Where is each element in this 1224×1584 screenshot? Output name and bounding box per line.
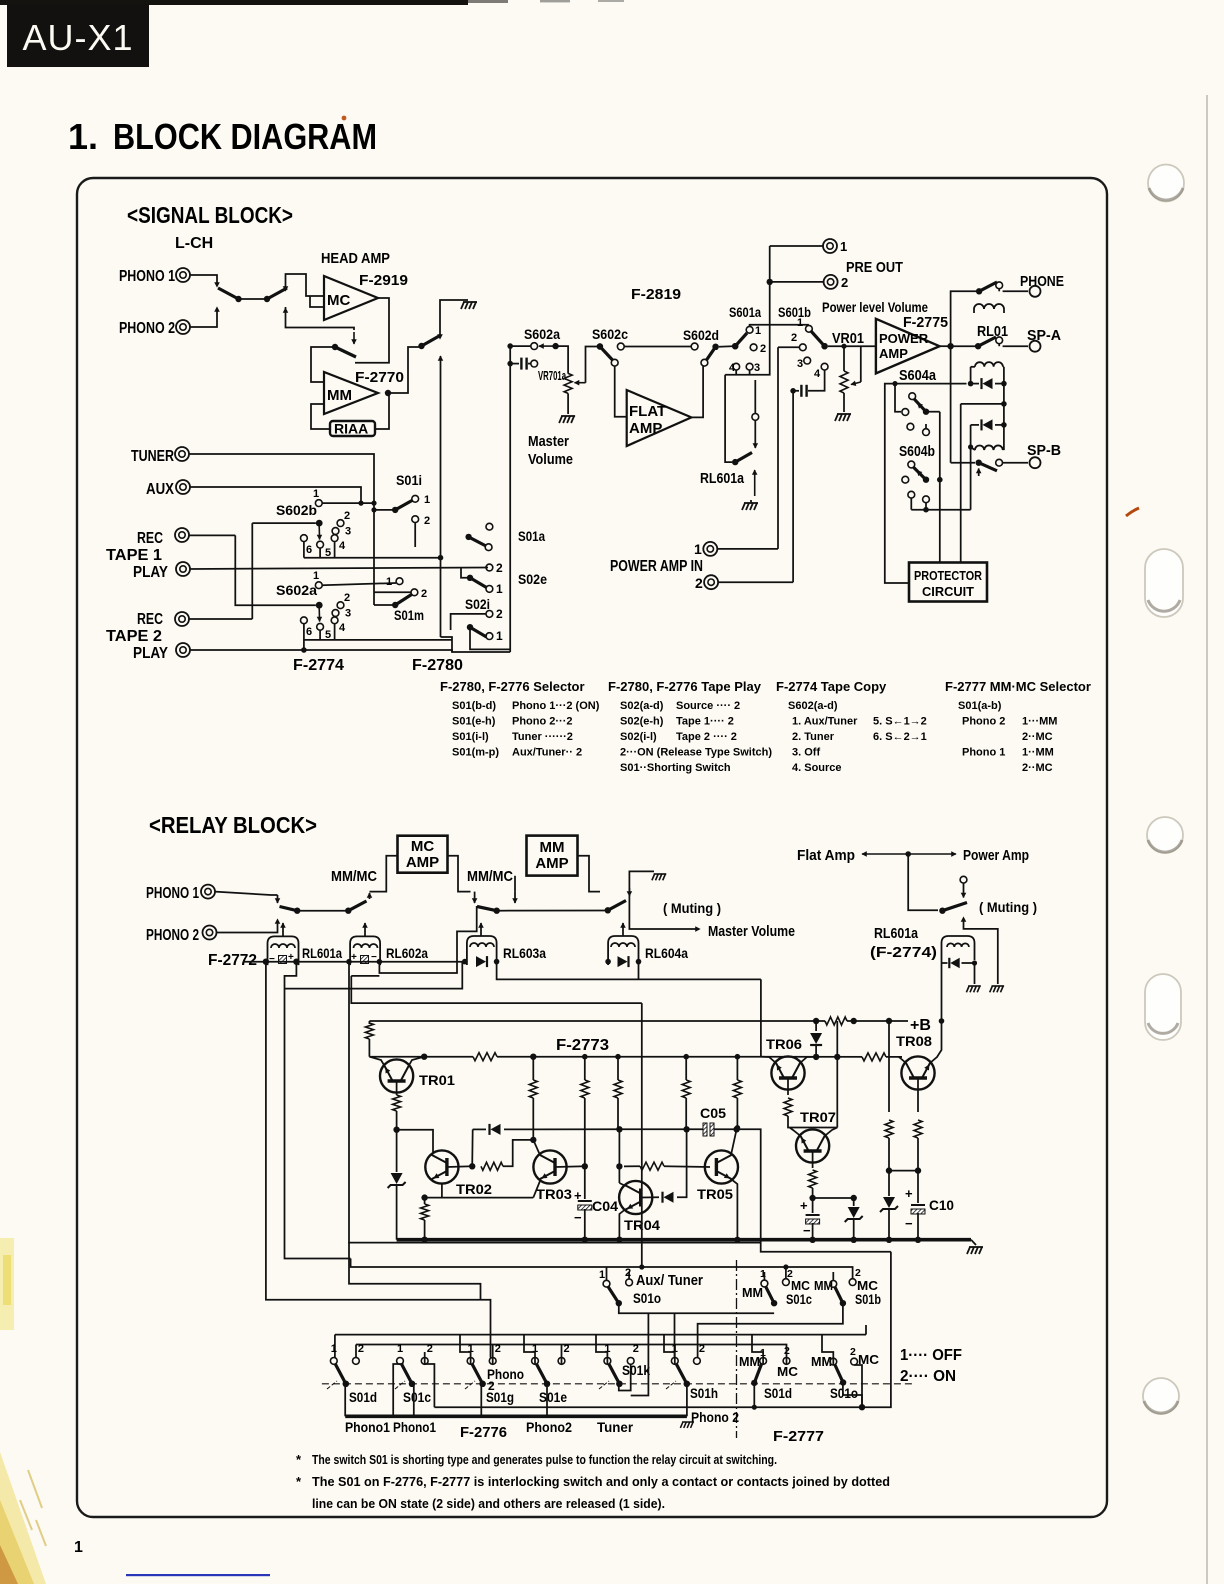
capacitor S601b branch bbox=[790, 388, 796, 394]
diagram outer border bbox=[77, 178, 1107, 1517]
svg-text:3. Off: 3. Off bbox=[792, 747, 820, 759]
svg-text:F-2775: F-2775 bbox=[903, 314, 948, 331]
wire MC amp input bbox=[370, 856, 398, 892]
transistor TR08 bbox=[901, 1056, 934, 1089]
svg-text:Tape 2 ···· 2: Tape 2 ···· 2 bbox=[676, 731, 737, 743]
ground muting bbox=[652, 874, 666, 880]
svg-text:1: 1 bbox=[840, 239, 847, 254]
resistor TR05 base bbox=[616, 1163, 622, 1169]
wire common down to S01h contact1 bbox=[674, 1313, 676, 1357]
wire relay left leg to +B rail bbox=[941, 960, 943, 1021]
wire relay routing v4 bbox=[351, 976, 642, 1003]
svg-text:POWER AMP IN: POWER AMP IN bbox=[610, 558, 703, 575]
svg-text:+: + bbox=[800, 1198, 808, 1213]
svg-text:( Muting ): ( Muting ) bbox=[663, 900, 721, 916]
svg-text:1: 1 bbox=[424, 494, 430, 506]
svg-text:S01c: S01c bbox=[403, 1389, 431, 1405]
svg-text:S604b: S604b bbox=[899, 443, 935, 460]
wire y1003 corner down to feeder bbox=[641, 1003, 643, 1267]
wire S602d to S601a bbox=[719, 345, 732, 348]
svg-text:FLAT: FLAT bbox=[629, 403, 666, 420]
diode RL603a bbox=[476, 956, 486, 967]
svg-text:PHONO 2: PHONO 2 bbox=[146, 927, 199, 944]
relay mute switch 2 bbox=[348, 901, 366, 911]
svg-text:S01d: S01d bbox=[349, 1389, 377, 1405]
bracket TR07 bbox=[790, 1127, 838, 1129]
wire S604a arm to riser bbox=[926, 411, 940, 413]
ground head amp mute bbox=[461, 302, 477, 309]
svg-text:TR07: TR07 bbox=[800, 1109, 836, 1125]
wire S01o arm to S01c common bbox=[619, 1303, 774, 1313]
svg-text:S602a: S602a bbox=[524, 326, 560, 342]
wire SP-A jack bbox=[998, 344, 1000, 347]
wire SP-B jack bbox=[1003, 462, 1029, 464]
wire zener C10 node bbox=[889, 1170, 918, 1172]
punch hole 2 (slot) bbox=[1145, 549, 1183, 617]
wire right leg to protector riser bbox=[961, 403, 1004, 405]
under-rail line to right bracket bbox=[348, 1242, 761, 1244]
capacitor coupling + contact bbox=[507, 361, 513, 367]
wire S604b bottom line bbox=[910, 498, 912, 510]
svg-text:1: 1 bbox=[496, 582, 503, 596]
svg-text:F-2770: F-2770 bbox=[355, 369, 404, 386]
wire output up to phone switch bbox=[951, 291, 976, 346]
svg-text:Tuner ······2: Tuner ······2 bbox=[512, 731, 573, 743]
relay RL602a coil box bbox=[350, 936, 380, 965]
wire to SP-B diode loop bbox=[970, 425, 972, 510]
svg-text:2: 2 bbox=[427, 1343, 433, 1355]
box PROTECTOR CIRCUIT bbox=[909, 563, 987, 602]
wire tape1 rec line bbox=[189, 534, 235, 536]
wire C05 right down to lower section bbox=[737, 1129, 891, 1252]
svg-text:1: 1 bbox=[313, 488, 319, 500]
svg-text:2··MC: 2··MC bbox=[1022, 731, 1053, 743]
wire under-bus return loop bbox=[379, 906, 476, 973]
svg-text:The S01 on F-2776, F-2777 is i: The S01 on F-2776, F-2777 is interlockin… bbox=[312, 1475, 890, 1489]
wire S601a bracket bbox=[725, 325, 770, 375]
svg-text:Phono1: Phono1 bbox=[345, 1420, 390, 1435]
svg-text:RL601a: RL601a bbox=[302, 945, 342, 961]
box MC AMP bbox=[398, 836, 448, 873]
wire S602a contact stubs bbox=[303, 624, 305, 650]
svg-text:AMP: AMP bbox=[535, 855, 568, 872]
svg-text:HEAD AMP: HEAD AMP bbox=[321, 250, 390, 267]
svg-text:Flat Amp: Flat Amp bbox=[797, 847, 855, 864]
svg-text:+B: +B bbox=[910, 1017, 931, 1034]
svg-text:4: 4 bbox=[339, 540, 346, 552]
svg-text:1: 1 bbox=[74, 1539, 83, 1556]
ground bottom rail bbox=[967, 1247, 983, 1254]
svg-text:1···MM: 1···MM bbox=[1022, 716, 1057, 728]
ground VR701a bbox=[559, 416, 575, 423]
svg-text:2: 2 bbox=[625, 1267, 631, 1279]
resistor +B rail bbox=[825, 1017, 847, 1025]
wire preout riser bbox=[769, 246, 771, 325]
svg-text:2. Tuner: 2. Tuner bbox=[792, 731, 835, 743]
long vertical x584 with resistor bbox=[584, 1057, 586, 1080]
resistor TR06 emitter bbox=[787, 1078, 789, 1095]
relay mute switch 3 bbox=[477, 907, 497, 911]
wire S602c to S602d bbox=[624, 346, 691, 348]
switch SP-B bbox=[951, 462, 975, 464]
svg-text:AMP: AMP bbox=[629, 420, 662, 437]
wire arrow into MM switch bbox=[353, 332, 355, 344]
svg-text:Aux/Tuner·· 2: Aux/Tuner·· 2 bbox=[512, 747, 582, 759]
svg-text:F-2773: F-2773 bbox=[556, 1037, 609, 1054]
svg-text:F-2780, F-2776 Selector: F-2780, F-2776 Selector bbox=[440, 679, 585, 694]
svg-text:MM/MC: MM/MC bbox=[331, 868, 377, 885]
svg-text:BLOCK DIAGRAM: BLOCK DIAGRAM bbox=[113, 116, 377, 157]
svg-text:REC: REC bbox=[137, 611, 163, 628]
wires bottom switch drops bbox=[344, 1384, 346, 1417]
diode TR04 base bbox=[641, 1196, 659, 1198]
svg-text:F-2774 Tape Copy: F-2774 Tape Copy bbox=[776, 679, 887, 694]
node S02e line bbox=[439, 566, 441, 568]
svg-text:Tuner: Tuner bbox=[597, 1420, 634, 1435]
wire tape2 play line bbox=[190, 650, 452, 652]
capacitor C05 bbox=[703, 1123, 707, 1136]
svg-text:2: 2 bbox=[488, 1379, 495, 1393]
relay coil S604a loop bbox=[975, 362, 1003, 367]
wire relay arm stubs to coils bbox=[281, 923, 286, 928]
wire flat amp output bbox=[691, 366, 703, 417]
wire tuner line bbox=[189, 454, 374, 605]
svg-text:S01e: S01e bbox=[539, 1389, 567, 1405]
jack PRE OUT 1 bbox=[770, 245, 823, 247]
svg-text:PHONO 2: PHONO 2 bbox=[119, 320, 175, 337]
svg-text:2: 2 bbox=[841, 275, 848, 290]
bottom rail thick bbox=[397, 1238, 971, 1242]
wire to TR02 collector bbox=[397, 1130, 433, 1152]
wires S01b common to S01h contact2 bbox=[698, 1303, 843, 1357]
transistor TR07 bbox=[796, 1129, 829, 1162]
punch hole 5 bbox=[1143, 1378, 1179, 1414]
resistor TR07 emitter bbox=[812, 1151, 814, 1168]
svg-text:5. S←1→2: 5. S←1→2 bbox=[873, 716, 927, 728]
transistor TR04 bbox=[619, 1181, 652, 1214]
switch phone bbox=[979, 282, 997, 291]
svg-text:SP-A: SP-A bbox=[1027, 327, 1061, 344]
svg-text:2···ON (Release Type Switch): 2···ON (Release Type Switch) bbox=[620, 747, 772, 759]
wire TR05 collector bbox=[731, 1129, 737, 1155]
wire phono1 to selector bbox=[190, 275, 217, 284]
svg-text:1···· OFF: 1···· OFF bbox=[900, 1347, 962, 1364]
svg-text:MM/MC: MM/MC bbox=[467, 868, 513, 885]
zener diode left bbox=[396, 1130, 398, 1172]
scan artifact: blue line at bottom bbox=[126, 1574, 270, 1576]
svg-text:1: 1 bbox=[496, 629, 503, 643]
svg-text:−: − bbox=[905, 1216, 913, 1231]
wire tape2 rec line bbox=[189, 618, 252, 620]
riser to protector 2 bbox=[960, 404, 962, 563]
wire TR03 base bbox=[555, 1165, 585, 1168]
wire selector right lower stub bbox=[286, 307, 355, 330]
wire down to power mute switch bbox=[908, 854, 938, 910]
switch MM/MC select bbox=[335, 347, 356, 357]
svg-text:Phono 2: Phono 2 bbox=[691, 1409, 739, 1425]
wire TR06 leads bbox=[762, 1057, 777, 1063]
svg-text:2··MC: 2··MC bbox=[1022, 762, 1053, 774]
svg-text:MM: MM bbox=[811, 1355, 832, 1369]
svg-text:F-2777 MM·MC Selector: F-2777 MM·MC Selector bbox=[945, 679, 1091, 694]
capacitor C04 bbox=[584, 1166, 586, 1199]
svg-text:2: 2 bbox=[855, 1267, 861, 1279]
op-amp MM equalizer amp bbox=[324, 372, 378, 414]
wire VR701a bottom to ground bbox=[567, 393, 569, 414]
switch cluster S604a bbox=[909, 393, 916, 400]
tick S01o contact2 bbox=[628, 1272, 630, 1280]
svg-text:RL604a: RL604a bbox=[645, 945, 688, 961]
svg-text:4: 4 bbox=[729, 362, 736, 374]
svg-text:MM: MM bbox=[327, 387, 352, 404]
switch cluster S604b bbox=[908, 461, 915, 468]
svg-text:RL603a: RL603a bbox=[503, 945, 546, 961]
node rail TR06-TR08 bbox=[762, 1056, 903, 1058]
wire flat amp input bbox=[615, 366, 627, 417]
op-amp MC head amp bbox=[324, 276, 378, 320]
wire wiper to S602c bbox=[586, 347, 598, 383]
jack PRE OUT 2 bbox=[770, 281, 823, 283]
wire S02i bottom bbox=[470, 627, 510, 649]
wire TR01 collector bbox=[409, 1057, 425, 1066]
wire to master volume bbox=[629, 874, 697, 929]
wire tuner to S01m contact2 bbox=[374, 591, 411, 593]
resistor TR01 emitter bbox=[396, 1081, 398, 1095]
relay RL603a coil box bbox=[467, 936, 497, 965]
svg-text:6: 6 bbox=[306, 544, 312, 556]
svg-text:2: 2 bbox=[358, 1343, 364, 1355]
svg-text:PHONO 1: PHONO 1 bbox=[119, 268, 175, 285]
wire mute ground arrow bbox=[754, 470, 756, 496]
svg-text:TUNER: TUNER bbox=[131, 448, 174, 465]
svg-text:Phono 1: Phono 1 bbox=[962, 747, 1005, 759]
wire phone jack bbox=[1003, 290, 1028, 292]
resistor TR01 collector feed bbox=[368, 1021, 370, 1024]
svg-text:MC: MC bbox=[411, 838, 434, 855]
svg-text:CIRCUIT: CIRCUIT bbox=[922, 585, 974, 599]
scan artifact: right page edge line bbox=[1206, 95, 1208, 1584]
resistor x889 vertical bbox=[888, 1021, 890, 1112]
scan artifact: orange speck above title bbox=[342, 116, 347, 121]
svg-text:2: 2 bbox=[344, 510, 350, 522]
svg-text:POWER: POWER bbox=[879, 331, 929, 346]
svg-text:F-2780: F-2780 bbox=[412, 657, 463, 674]
svg-text:TR02: TR02 bbox=[456, 1181, 492, 1197]
wire relay routing v3 bbox=[349, 962, 481, 1300]
long vertical x618 with resistor bbox=[615, 1054, 621, 1060]
node line y1129 to C05 bbox=[616, 1126, 622, 1132]
svg-text:( Muting ): ( Muting ) bbox=[979, 899, 1037, 915]
diode SP-A relay bbox=[971, 383, 979, 385]
wire VR01 top bbox=[843, 346, 845, 361]
svg-text:1··MM: 1··MM bbox=[1022, 747, 1054, 759]
wire MC output to MM switch bbox=[355, 298, 389, 363]
ground relay 1 bbox=[966, 986, 980, 992]
svg-text:1: 1 bbox=[797, 317, 803, 329]
svg-text:PRE OUT: PRE OUT bbox=[846, 259, 903, 276]
svg-text:S02i: S02i bbox=[465, 596, 490, 612]
wire rec1 to S602a wiper bbox=[235, 535, 252, 605]
feeder line y1344 bbox=[356, 1344, 697, 1346]
diode RL601a/F-2774 bbox=[942, 962, 948, 964]
svg-text:TAPE 2: TAPE 2 bbox=[106, 628, 162, 645]
punch hole 3 bbox=[1147, 817, 1183, 853]
scan artifact: orange scratch right margin bbox=[1126, 508, 1139, 516]
resistor x737 vertical bbox=[735, 1054, 741, 1060]
wire SP-B mechanical arrow bbox=[976, 469, 981, 474]
relay coil RL01 bbox=[974, 304, 1004, 309]
wire MM amp output bbox=[578, 856, 601, 892]
svg-text:Phono2: Phono2 bbox=[526, 1420, 572, 1435]
svg-text:C10: C10 bbox=[929, 1197, 954, 1213]
wire MM switch to MM amp input bbox=[311, 347, 335, 382]
svg-text:4: 4 bbox=[814, 368, 821, 380]
svg-text:S01c: S01c bbox=[786, 1291, 812, 1307]
svg-text:S602c: S602c bbox=[592, 326, 628, 342]
wire aux line bbox=[190, 487, 361, 503]
vertical +B resistor to node bbox=[836, 1021, 838, 1057]
svg-text:S602d: S602d bbox=[683, 327, 719, 343]
svg-text:S602a: S602a bbox=[276, 582, 317, 598]
wire phono2 relay feed bbox=[217, 922, 278, 933]
transistor TR01 bbox=[380, 1059, 413, 1092]
svg-text:RIAA: RIAA bbox=[334, 421, 368, 437]
svg-text:F-2780, F-2776 Tape Play: F-2780, F-2776 Tape Play bbox=[608, 679, 762, 694]
wire ground 2 riser to mechanical link bbox=[964, 919, 998, 984]
wire to MM amp bbox=[497, 910, 608, 912]
svg-text:S01d: S01d bbox=[764, 1385, 792, 1401]
svg-text:AUX: AUX bbox=[146, 481, 174, 498]
svg-text:RL602a: RL602a bbox=[386, 945, 428, 961]
svg-text:F-2776: F-2776 bbox=[460, 1424, 507, 1441]
wire S02e arm feed bbox=[461, 568, 470, 578]
wire mute switch to ground bbox=[440, 300, 468, 336]
svg-text:−: − bbox=[803, 1223, 811, 1238]
svg-text:AMP: AMP bbox=[879, 346, 908, 361]
resistor node rail bbox=[862, 1051, 886, 1062]
svg-text:S01k: S01k bbox=[622, 1362, 650, 1378]
node TR01 emitter bbox=[393, 1127, 399, 1133]
relay RL604a coil box bbox=[608, 936, 638, 965]
+B rail bbox=[369, 1020, 908, 1022]
switch S602a contacts bbox=[531, 343, 538, 350]
scan artifact: top edge black strip bbox=[0, 0, 468, 5]
svg-text:S601b: S601b bbox=[778, 304, 811, 320]
svg-text:S01a: S01a bbox=[518, 528, 545, 544]
switch S601b bbox=[806, 325, 813, 332]
wire S601b to power amp bbox=[828, 345, 876, 347]
svg-text:2: 2 bbox=[850, 1346, 856, 1358]
switch power muting bbox=[942, 903, 967, 911]
wire RL601a mute contact bbox=[754, 420, 756, 434]
collector rail TR01 bbox=[369, 1056, 761, 1058]
wire y1299 junction bbox=[479, 1299, 481, 1301]
svg-text:S01m: S01m bbox=[394, 607, 424, 623]
zener TR08 bbox=[888, 1171, 890, 1196]
wire feeder stubs bbox=[334, 1335, 336, 1358]
svg-text:F-2772: F-2772 bbox=[208, 952, 257, 969]
selector S602a wiper bbox=[252, 604, 315, 606]
punch hole 4 (slot) bbox=[1145, 974, 1181, 1040]
svg-text:1: 1 bbox=[313, 570, 319, 582]
wire VR01 wiper bbox=[860, 346, 862, 382]
vertical x533 with resistor bbox=[532, 1057, 534, 1080]
node power amp output bbox=[947, 343, 953, 349]
svg-text:Phono 2···2: Phono 2···2 bbox=[512, 716, 573, 728]
switch S601a bbox=[732, 343, 738, 349]
svg-text:2: 2 bbox=[695, 575, 703, 591]
svg-text:(F-2774): (F-2774) bbox=[870, 944, 937, 961]
svg-text:Phono 1···2 (ON): Phono 1···2 (ON) bbox=[512, 700, 600, 712]
svg-text:TR05: TR05 bbox=[697, 1186, 733, 1202]
wire TR07 leads bbox=[790, 1128, 801, 1137]
svg-text:S01(e-h): S01(e-h) bbox=[452, 716, 496, 728]
svg-text:<RELAY BLOCK>: <RELAY BLOCK> bbox=[149, 812, 317, 838]
svg-text:S01··Shorting Switch: S01··Shorting Switch bbox=[620, 762, 731, 774]
wire S601a c1 to preout riser bbox=[750, 325, 809, 327]
chain line F-2776/F-2777 divider bbox=[736, 1260, 738, 1438]
wire TR08 leads bbox=[899, 1057, 906, 1063]
svg-text:S601a: S601a bbox=[729, 304, 761, 320]
svg-text:S01(i-l): S01(i-l) bbox=[452, 731, 489, 743]
switch S02e arm bbox=[470, 578, 487, 588]
svg-text:AMP: AMP bbox=[406, 854, 439, 871]
diode SP-B relay bbox=[971, 424, 979, 426]
relay bus RL601-602 bbox=[263, 959, 269, 965]
wire MM lower input loop bbox=[311, 404, 330, 429]
selector S602a contacts bbox=[337, 602, 344, 609]
svg-text:PLAY: PLAY bbox=[133, 645, 168, 662]
arrows flat amp / power amp bbox=[862, 853, 908, 855]
resistor collector rail bbox=[473, 1051, 497, 1062]
resistor TR05 vertical x686 bbox=[683, 1054, 689, 1060]
wire selector right to MC amp bbox=[286, 274, 325, 296]
svg-text:RL601a: RL601a bbox=[874, 925, 919, 942]
feeder line y1334 bbox=[335, 1334, 866, 1336]
svg-text:line can be ON state (2 side): line can be ON state (2 side) and others… bbox=[312, 1497, 665, 1511]
svg-text:3: 3 bbox=[345, 608, 351, 620]
svg-text:+: + bbox=[905, 1186, 913, 1201]
wire phono2 to selector bbox=[190, 310, 217, 327]
box MM AMP bbox=[527, 836, 578, 876]
svg-text:S01o: S01o bbox=[633, 1290, 661, 1306]
svg-text:S01(m-p): S01(m-p) bbox=[452, 747, 499, 759]
svg-text:2: 2 bbox=[633, 1343, 639, 1355]
jack POWER AMP IN 1 bbox=[703, 542, 717, 556]
selector S602b contact 1 bbox=[315, 500, 322, 507]
ground relay 2 bbox=[990, 986, 1004, 992]
wire VR01 to ground bbox=[843, 393, 845, 412]
wire RL601a left leg down bbox=[266, 962, 491, 1358]
diode TR02-TR03 bbox=[471, 1129, 474, 1166]
svg-text:Power level Volume: Power level Volume bbox=[822, 299, 928, 315]
svg-text:4. Source: 4. Source bbox=[792, 762, 842, 774]
resistor below TR02 bbox=[424, 1198, 426, 1204]
svg-text:2···· ON: 2···· ON bbox=[900, 1368, 956, 1385]
svg-text:6: 6 bbox=[306, 626, 312, 638]
wire relay right leg to ground bbox=[974, 963, 976, 984]
model name plate AU-X1 bbox=[7, 4, 149, 67]
eq network RIAA box bbox=[330, 421, 375, 436]
svg-text:TR08: TR08 bbox=[896, 1033, 932, 1049]
resistor TR08 emitter vertical bbox=[917, 1078, 919, 1112]
svg-text:TR03: TR03 bbox=[536, 1186, 572, 1202]
svg-text:−: − bbox=[574, 1210, 582, 1225]
svg-text:Power Amp: Power Amp bbox=[963, 847, 1029, 864]
svg-text:RL601a: RL601a bbox=[700, 471, 745, 487]
svg-text:VR701a: VR701a bbox=[538, 368, 566, 383]
wire MC contact to bracket bbox=[854, 1365, 862, 1407]
